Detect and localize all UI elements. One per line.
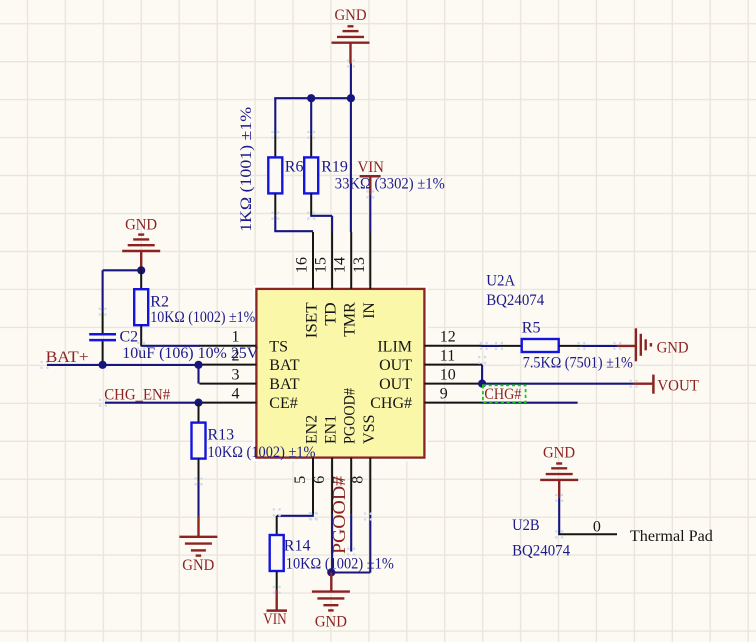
svg-text:CE#: CE# <box>269 395 297 412</box>
pin 5 EN2 (bottom) <box>312 458 314 515</box>
svg-text:GND: GND <box>335 7 367 24</box>
pin 4 CE# (left) <box>199 402 256 404</box>
svg-text:10: 10 <box>440 366 456 383</box>
pin 13 IN (top) <box>369 232 371 289</box>
junction at R19 top <box>307 94 315 102</box>
svg-text:9: 9 <box>440 385 448 402</box>
resistor R2 <box>134 267 148 346</box>
junction C2 / BAT+ <box>99 361 107 369</box>
svg-text:TS: TS <box>269 338 288 355</box>
svg-text:C2: C2 <box>120 328 139 345</box>
wire BAT pin2 to pin3 <box>197 365 199 384</box>
svg-text:CHG_EN#: CHG_EN# <box>104 387 170 404</box>
wire R19 bottom to pin 15 <box>310 216 332 232</box>
junction CHG_EN# / R13 <box>194 399 202 407</box>
hotspot marker U2B stem <box>555 494 563 502</box>
svg-text:CHG#: CHG# <box>370 395 412 412</box>
svg-text:10KΩ (1002) ±1%: 10KΩ (1002) ±1% <box>150 309 255 326</box>
hotspot marker U2B pin <box>555 530 563 538</box>
hotspot marker R19 pin 2 <box>307 212 315 220</box>
resistor R19 <box>304 135 318 216</box>
hotspot marker pin11 corner <box>478 356 486 364</box>
wire pin 12 to R5 <box>481 345 499 347</box>
svg-text:16: 16 <box>294 257 311 273</box>
power port GND (below R13) <box>179 516 217 556</box>
svg-text:VIN: VIN <box>357 159 384 176</box>
hotspot markers bottom stubs <box>310 512 318 520</box>
hotspot marker at GND stem <box>347 59 355 67</box>
svg-text:Thermal Pad: Thermal Pad <box>630 528 713 545</box>
svg-text:13: 13 <box>351 257 368 273</box>
wire CHG_EN# net <box>105 402 200 404</box>
svg-text:4: 4 <box>232 385 240 402</box>
selection box around CHG# <box>483 385 526 402</box>
svg-text:R14: R14 <box>284 538 311 555</box>
svg-text:VIN: VIN <box>263 611 287 628</box>
hotspot marker pin5 bend <box>309 512 317 520</box>
svg-text:BQ24074: BQ24074 <box>486 292 544 309</box>
junction VSS ground <box>327 568 335 576</box>
svg-text:BAT: BAT <box>269 376 299 393</box>
svg-text:1: 1 <box>232 329 240 346</box>
wire BAT+ net <box>47 364 200 366</box>
svg-text:GND: GND <box>315 613 347 630</box>
svg-text:12: 12 <box>440 329 456 346</box>
resistor R5 <box>499 339 581 352</box>
wire R19 top <box>310 98 312 135</box>
hotspot marker GND right stem <box>613 342 621 350</box>
hotspot marker VOUT stem <box>629 380 637 388</box>
wire branch to C2 <box>103 270 142 311</box>
wire R6 top <box>274 98 276 135</box>
capacitor C2 <box>89 312 116 365</box>
svg-text:14: 14 <box>332 257 349 273</box>
pin 0 Thermal Pad <box>558 533 617 535</box>
svg-text:10uF (106) 10% 25V: 10uF (106) 10% 25V <box>122 345 258 362</box>
svg-text:GND: GND <box>125 217 157 234</box>
svg-text:10KΩ (1002) ±1%: 10KΩ (1002) ±1% <box>286 555 394 572</box>
wire pin 7 PGOOD# stub <box>350 515 352 552</box>
wire R6 bottom to pin 16 <box>274 216 313 232</box>
junction BAT wire <box>194 361 202 369</box>
pin 15 TD (top) <box>331 232 333 289</box>
pin 9 CHG# (right) <box>424 402 481 404</box>
pin 6 EN1 (bottom) <box>331 458 333 515</box>
svg-text:11: 11 <box>440 347 455 364</box>
hotspot marker R13 pin 2 <box>194 477 202 485</box>
svg-text:CHG#: CHG# <box>484 386 521 403</box>
svg-text:BQ24074: BQ24074 <box>512 542 570 559</box>
hotspot marker R14 pin 1 <box>273 508 281 516</box>
resistor R6 <box>268 135 282 216</box>
svg-text:R13: R13 <box>208 426 235 443</box>
junction R2 top <box>137 266 145 274</box>
power port VIN (bottom) <box>267 590 288 611</box>
wire R2 bottom to pin 1 <box>141 345 200 347</box>
junction OUT <box>478 380 486 388</box>
op-amp U2A BQ24074 body <box>256 289 424 458</box>
svg-text:GND: GND <box>543 444 575 461</box>
svg-text:EN1: EN1 <box>323 415 340 444</box>
pin 1 TS (left) <box>199 345 256 347</box>
wire pin 8 VSS to ground <box>331 515 370 573</box>
power port VOUT <box>634 375 654 394</box>
pin 7 PGOOD# (bottom) <box>350 458 352 515</box>
svg-text:TD: TD <box>323 302 340 326</box>
svg-text:R6: R6 <box>285 159 304 176</box>
svg-text:R19: R19 <box>321 159 348 176</box>
pin 3 BAT (left) <box>199 383 256 385</box>
svg-text:IN: IN <box>361 302 378 319</box>
pin 2 BAT (left) <box>199 364 256 366</box>
wire R5 to GND <box>581 345 617 347</box>
hotspot marker R2 bottom <box>137 342 145 350</box>
svg-text:VOUT: VOUT <box>657 377 699 394</box>
pin 12 ILIM (right) <box>424 345 481 347</box>
wire pin 5 to R14 <box>277 515 314 516</box>
svg-text:GND: GND <box>182 557 214 574</box>
wire horizontal GND bus above R6/R19 <box>274 97 351 99</box>
power port GND (bottom) <box>312 572 350 610</box>
wire CHG# net <box>481 402 578 404</box>
hotspot marker pin7 wire end <box>347 547 355 555</box>
svg-text:1KΩ (1001) ±1%: 1KΩ (1001) ±1% <box>238 107 255 232</box>
svg-text:PGOOD#: PGOOD# <box>342 388 359 444</box>
hotspot marker BAT+ end <box>40 361 48 369</box>
hotspot marker R5 pin 1 <box>495 342 503 350</box>
wire pin 11 corner <box>481 365 482 384</box>
hotspot marker R19 pin 1 <box>307 131 315 139</box>
svg-text:PGOOD#: PGOOD# <box>329 476 349 554</box>
wire from top GND down to pin 14 <box>350 64 352 233</box>
resistor R13 <box>192 403 206 482</box>
pin 11 OUT (right) <box>424 364 481 366</box>
junction GND wire <box>347 94 355 102</box>
power port GND (U2B) <box>540 464 578 498</box>
svg-text:OUT: OUT <box>379 376 412 393</box>
pin 8 VSS (bottom) <box>369 458 371 515</box>
svg-text:GND: GND <box>657 339 689 356</box>
hotspot marker ILIM wire <box>480 342 488 350</box>
svg-text:8: 8 <box>349 476 366 484</box>
svg-text:6: 6 <box>311 476 328 484</box>
pin 16 ISET (top) <box>312 232 314 289</box>
svg-text:15: 15 <box>313 257 330 273</box>
svg-text:TMR: TMR <box>342 302 359 337</box>
hotspot marker R6 pin 1 <box>271 131 279 139</box>
svg-text:OUT: OUT <box>379 357 412 374</box>
svg-text:0: 0 <box>593 518 601 535</box>
wire VIN to pin 13 <box>369 194 371 232</box>
svg-text:33KΩ (3302) ±1%: 33KΩ (3302) ±1% <box>335 176 445 193</box>
svg-text:ILIM: ILIM <box>377 338 412 355</box>
wire pin 6 EN1 down to ground junction <box>331 515 333 573</box>
svg-text:7.5KΩ (7501) ±1%: 7.5KΩ (7501) ±1% <box>523 354 633 371</box>
wire U2B GND <box>558 498 560 534</box>
svg-text:3: 3 <box>232 366 240 383</box>
pin 14 TMR (top) <box>350 232 352 289</box>
hotspot marker C2 pin 1 <box>98 307 106 315</box>
hotspot marker CHG_EN# end <box>99 399 107 407</box>
pin 10 OUT (right) <box>424 383 481 385</box>
svg-text:U2B: U2B <box>512 517 540 534</box>
svg-text:R5: R5 <box>522 319 541 336</box>
svg-text:VSS: VSS <box>361 415 378 445</box>
power port GND (left) <box>122 235 160 269</box>
hotspot marker VIN stem <box>366 190 374 198</box>
wire OUT to VOUT <box>482 383 633 385</box>
hotspot marker R5 pin 2 <box>577 342 585 350</box>
power port GND (top) <box>332 26 370 63</box>
hotspot marker pin8 bend <box>364 512 372 520</box>
svg-text:BAT+: BAT+ <box>46 349 89 366</box>
power port GND (right) <box>617 328 651 361</box>
power port VIN (top) <box>360 176 381 194</box>
svg-text:EN2: EN2 <box>304 415 321 444</box>
svg-text:10KΩ (1002) ±1%: 10KΩ (1002) ±1% <box>208 444 316 461</box>
hotspot marker R14 pin 2 <box>273 586 281 594</box>
hotspot marker R6 pin 2 <box>271 212 279 220</box>
wire R13 to GND <box>197 481 199 516</box>
svg-text:5: 5 <box>292 476 309 484</box>
svg-text:ISET: ISET <box>304 302 321 338</box>
svg-text:BAT: BAT <box>269 357 299 374</box>
svg-text:U2A: U2A <box>486 273 515 290</box>
resistor R14 <box>270 516 284 590</box>
